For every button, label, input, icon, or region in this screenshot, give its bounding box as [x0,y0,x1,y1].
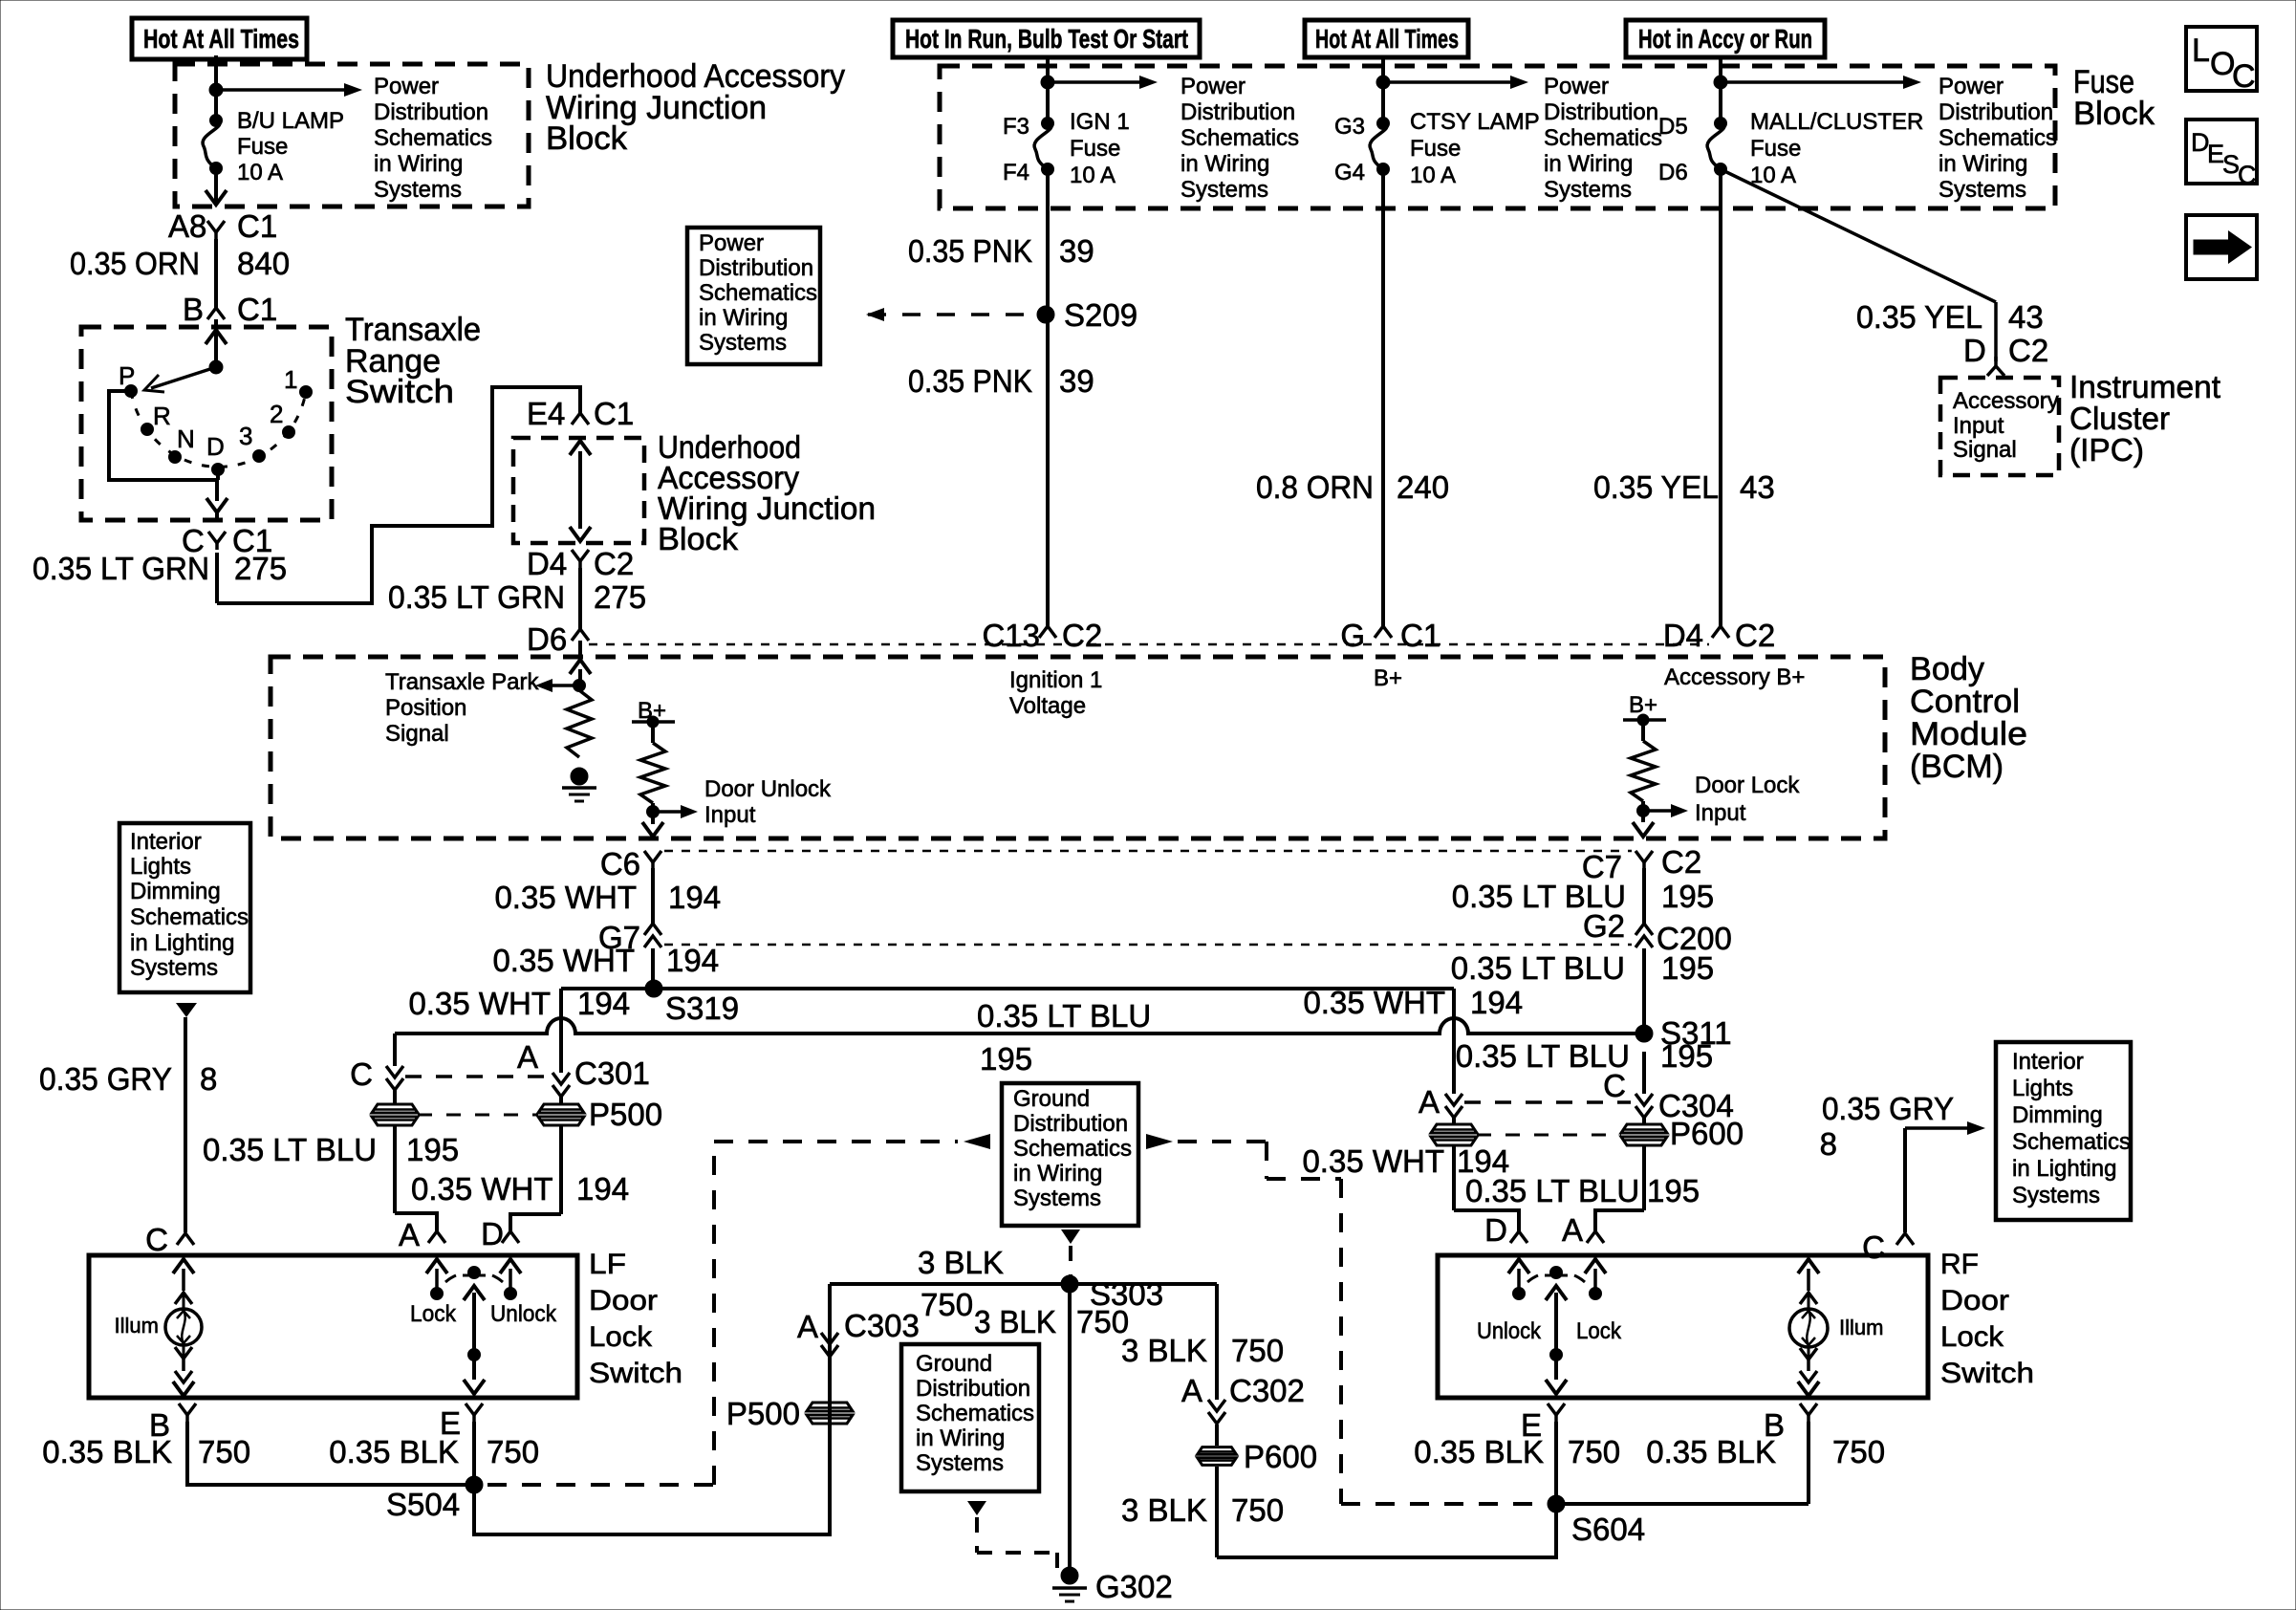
svg-text:C: C [2232,58,2256,95]
svg-text:Switch: Switch [345,374,454,410]
svg-text:0.35 WHT: 0.35 WHT [494,880,637,915]
svg-text:0.35 WHT: 0.35 WHT [1303,985,1445,1020]
svg-text:A: A [517,1039,538,1075]
svg-text:3 BLK: 3 BLK [1121,1492,1207,1528]
svg-text:A: A [1181,1373,1202,1408]
svg-text:D5: D5 [1658,114,1688,140]
svg-text:B: B [183,292,204,327]
svg-text:39: 39 [1059,233,1094,269]
svg-text:D4: D4 [527,546,567,581]
svg-text:Schematics: Schematics [1939,125,2057,151]
svg-text:Cluster: Cluster [2069,401,2170,436]
svg-text:L: L [2192,33,2210,69]
svg-text:in Wiring: in Wiring [699,305,788,331]
svg-text:Lock: Lock [589,1321,653,1353]
svg-text:Distribution: Distribution [374,99,488,125]
svg-text:Dimming: Dimming [2012,1102,2103,1128]
svg-text:Schematics: Schematics [1013,1136,1132,1162]
svg-text:Hot in Accy or Run: Hot in Accy or Run [1638,24,1812,54]
svg-text:C2: C2 [2008,333,2048,368]
svg-text:D6: D6 [1658,160,1688,185]
svg-text:Signal: Signal [385,721,449,747]
svg-text:C1: C1 [237,208,277,244]
svg-text:0.35 PNK: 0.35 PNK [908,233,1032,269]
svg-text:194: 194 [576,1171,629,1207]
svg-text:in Wiring: in Wiring [916,1425,1005,1451]
svg-text:3 BLK: 3 BLK [1121,1333,1207,1368]
svg-text:43: 43 [1740,469,1775,505]
svg-text:in Wiring: in Wiring [1544,151,1633,177]
svg-text:8: 8 [1820,1126,1837,1162]
svg-text:750: 750 [1568,1434,1620,1469]
svg-text:0.8 ORN: 0.8 ORN [1256,469,1374,505]
svg-text:Accessory: Accessory [1953,388,2059,414]
svg-text:C: C [2238,161,2257,189]
svg-text:C1: C1 [1400,618,1440,653]
svg-text:750: 750 [198,1434,250,1469]
svg-text:C2: C2 [594,546,634,581]
svg-text:D: D [481,1216,504,1251]
svg-text:Transaxle Park: Transaxle Park [385,669,540,695]
svg-text:Systems: Systems [1939,177,2026,203]
svg-text:Fuse: Fuse [1410,136,1461,162]
svg-text:Power: Power [1180,74,1245,99]
svg-text:Distribution: Distribution [916,1376,1030,1402]
svg-text:Dimming: Dimming [130,879,221,904]
svg-text:240: 240 [1397,469,1449,505]
svg-text:275: 275 [234,551,287,586]
svg-text:C: C [145,1222,168,1257]
svg-text:Schematics: Schematics [374,125,492,151]
svg-text:Lock: Lock [410,1301,457,1327]
svg-text:10 A: 10 A [1070,163,1116,188]
svg-text:in Wiring: in Wiring [1180,151,1269,177]
svg-text:Control: Control [1910,684,2020,720]
svg-text:10 A: 10 A [237,160,283,185]
svg-text:195: 195 [1647,1173,1700,1208]
svg-text:Ignition 1: Ignition 1 [1009,667,1102,693]
svg-text:0.35 YEL: 0.35 YEL [1856,299,1982,335]
svg-text:in Wiring: in Wiring [374,151,463,177]
svg-text:C: C [1862,1229,1885,1265]
svg-text:0.35 WHT: 0.35 WHT [408,986,551,1021]
svg-text:C2: C2 [1661,844,1701,880]
svg-text:D: D [206,432,225,461]
svg-text:G302: G302 [1095,1569,1173,1604]
svg-text:in Wiring: in Wiring [1013,1161,1102,1186]
svg-text:C2: C2 [1062,618,1102,653]
svg-text:43: 43 [2008,299,2044,335]
svg-text:A8: A8 [168,208,206,244]
svg-text:0.35 GRY: 0.35 GRY [1822,1091,1954,1126]
svg-text:194: 194 [668,880,721,915]
svg-text:0.35 LT GRN: 0.35 LT GRN [32,551,209,586]
svg-text:R: R [153,402,171,430]
svg-text:Signal: Signal [1953,437,2017,463]
svg-text:Power: Power [374,74,439,99]
svg-text:G: G [1340,618,1365,653]
svg-text:750: 750 [487,1434,539,1469]
svg-text:195: 195 [1661,879,1714,914]
svg-text:D: D [1484,1212,1507,1248]
svg-text:194: 194 [577,986,630,1021]
svg-text:S209: S209 [1064,297,1137,333]
svg-text:Illum: Illum [1839,1316,1883,1339]
svg-text:Schematics: Schematics [1180,125,1299,151]
svg-text:Distribution: Distribution [1013,1111,1128,1137]
svg-text:Instrument: Instrument [2069,369,2220,404]
svg-text:Schematics: Schematics [699,280,817,306]
svg-text:C1: C1 [237,292,277,327]
svg-text:S319: S319 [665,990,739,1026]
svg-text:Input: Input [704,802,756,828]
svg-text:Schematics: Schematics [130,904,249,930]
svg-text:0.35 ORN: 0.35 ORN [70,246,200,281]
svg-text:Unlock: Unlock [1477,1318,1542,1344]
svg-text:Accessory B+: Accessory B+ [1664,664,1805,690]
svg-text:B/U LAMP: B/U LAMP [237,108,344,134]
svg-text:C6: C6 [600,846,640,881]
svg-text:Hot In Run, Bulb Test Or Start: Hot In Run, Bulb Test Or Start [905,24,1188,54]
svg-text:F3: F3 [1003,114,1029,140]
svg-text:840: 840 [237,246,290,281]
svg-text:Systems: Systems [130,955,218,981]
svg-text:Illum: Illum [115,1314,159,1338]
svg-text:A: A [1419,1084,1440,1120]
svg-text:750: 750 [1832,1434,1885,1469]
svg-text:0.35 LT BLU: 0.35 LT BLU [1451,950,1625,986]
svg-text:10 A: 10 A [1750,163,1796,188]
svg-text:A: A [399,1217,420,1252]
svg-text:Input: Input [1695,800,1746,826]
svg-text:P500: P500 [726,1396,800,1431]
svg-text:C303: C303 [844,1308,920,1343]
svg-text:Body: Body [1910,651,1984,687]
svg-text:LF: LF [589,1249,626,1280]
svg-text:Block: Block [658,521,739,556]
svg-text:3 BLK: 3 BLK [918,1245,1004,1280]
svg-text:Door: Door [589,1285,658,1316]
svg-text:750: 750 [921,1287,973,1322]
svg-text:Ground: Ground [1013,1086,1090,1112]
svg-text:C2: C2 [1735,618,1775,653]
svg-text:0.35 LT GRN: 0.35 LT GRN [388,579,565,615]
svg-text:Interior: Interior [130,829,202,855]
svg-text:Schematics: Schematics [916,1401,1034,1426]
svg-text:Block: Block [2073,96,2155,132]
svg-text:C13: C13 [982,618,1040,653]
svg-text:C302: C302 [1229,1373,1305,1408]
svg-text:0.35 BLK: 0.35 BLK [1646,1434,1776,1469]
svg-text:Fuse: Fuse [1070,136,1120,162]
svg-text:Systems: Systems [374,177,462,203]
svg-text:Lights: Lights [130,854,191,880]
svg-text:Lights: Lights [2012,1076,2073,1101]
svg-text:Hot At All Times: Hot At All Times [1315,24,1459,54]
svg-text:Systems: Systems [916,1450,1004,1476]
svg-text:C: C [350,1056,373,1092]
svg-text:0.35 YEL: 0.35 YEL [1593,469,1719,505]
svg-text:0.35 PNK: 0.35 PNK [908,363,1032,399]
svg-text:S504: S504 [386,1487,460,1522]
svg-text:3: 3 [239,422,252,450]
svg-text:Schematics: Schematics [1544,125,1662,151]
svg-text:Distribution: Distribution [1544,99,1658,125]
svg-text:0.35 LT BLU: 0.35 LT BLU [203,1132,377,1167]
svg-text:750: 750 [1231,1333,1284,1368]
svg-text:194: 194 [666,943,719,978]
svg-text:195: 195 [1661,950,1714,986]
svg-text:Distribution: Distribution [1939,99,2053,125]
svg-text:P: P [119,361,135,390]
svg-text:0.35 BLK: 0.35 BLK [42,1434,172,1469]
svg-text:S604: S604 [1571,1512,1645,1547]
svg-text:195: 195 [406,1132,459,1167]
svg-text:1: 1 [284,365,297,394]
svg-text:2: 2 [270,400,283,428]
svg-text:750: 750 [1231,1492,1284,1528]
svg-text:194: 194 [1470,985,1523,1020]
svg-text:Door: Door [1940,1285,2009,1316]
svg-text:0.35 LT BLU: 0.35 LT BLU [977,998,1151,1033]
svg-text:CTSY LAMP: CTSY LAMP [1410,109,1540,135]
svg-text:P600: P600 [1670,1116,1744,1151]
svg-text:Module: Module [1910,716,2027,752]
svg-text:in Lighting: in Lighting [2012,1156,2116,1182]
svg-text:Distribution: Distribution [1180,99,1295,125]
svg-text:0.35 LT BLU: 0.35 LT BLU [1465,1173,1639,1208]
svg-text:N: N [177,424,195,453]
svg-text:Position: Position [385,695,466,721]
svg-text:RF: RF [1940,1249,1979,1280]
svg-text:0.35 BLK: 0.35 BLK [329,1434,459,1469]
svg-text:195: 195 [980,1041,1032,1077]
svg-text:Systems: Systems [1180,177,1268,203]
svg-text:(IPC): (IPC) [2069,432,2144,468]
svg-text:B+: B+ [1374,665,1402,691]
svg-text:D: D [1963,333,1986,368]
svg-text:(BCM): (BCM) [1910,749,2004,785]
svg-text:F4: F4 [1003,160,1029,185]
svg-text:C: C [1603,1068,1626,1103]
svg-text:G2: G2 [1583,908,1625,944]
svg-text:275: 275 [594,579,646,615]
svg-text:8: 8 [200,1061,217,1097]
svg-text:Fuse: Fuse [1750,136,1801,162]
svg-text:Unlock: Unlock [490,1301,557,1327]
svg-text:Systems: Systems [2012,1183,2100,1208]
svg-text:Hot At All Times: Hot At All Times [143,24,299,54]
svg-text:Systems: Systems [1013,1186,1101,1211]
svg-text:Systems: Systems [1544,177,1632,203]
svg-text:10 A: 10 A [1410,163,1456,188]
svg-text:Distribution: Distribution [699,255,813,281]
svg-text:0.35 BLK: 0.35 BLK [1414,1434,1544,1469]
svg-text:G3: G3 [1334,114,1365,140]
svg-text:D6: D6 [527,621,567,657]
svg-text:Interior: Interior [2012,1049,2084,1075]
svg-text:Input: Input [1953,413,2004,439]
svg-text:Door Lock: Door Lock [1695,772,1800,798]
svg-text:3 BLK: 3 BLK [974,1304,1056,1339]
svg-text:IGN 1: IGN 1 [1070,109,1130,135]
svg-text:Switch: Switch [1940,1358,2034,1389]
svg-text:MALL/CLUSTER: MALL/CLUSTER [1750,109,1923,135]
svg-text:A: A [1562,1212,1583,1248]
svg-text:Schematics: Schematics [2012,1129,2131,1155]
svg-text:C1: C1 [594,396,634,431]
svg-text:Fuse: Fuse [237,134,288,160]
svg-text:Lock: Lock [1940,1321,2004,1353]
svg-text:0.35 GRY: 0.35 GRY [39,1061,172,1097]
svg-text:G4: G4 [1334,160,1365,185]
svg-text:P500: P500 [589,1097,662,1132]
svg-text:Lock: Lock [1576,1318,1622,1344]
svg-text:0.35 WHT: 0.35 WHT [492,943,635,978]
svg-text:in Wiring: in Wiring [1939,151,2027,177]
svg-text:Power: Power [699,230,764,256]
svg-text:Voltage: Voltage [1009,693,1086,719]
svg-text:C301: C301 [574,1055,650,1091]
svg-text:Ground: Ground [916,1351,992,1377]
svg-text:in Lighting: in Lighting [130,930,234,956]
svg-text:0.35 WHT: 0.35 WHT [411,1171,553,1207]
svg-text:39: 39 [1059,363,1094,399]
svg-text:Block: Block [546,120,628,157]
svg-text:E4: E4 [527,396,565,431]
svg-text:D4: D4 [1663,618,1703,653]
svg-text:P600: P600 [1244,1439,1317,1474]
svg-text:Power: Power [1544,74,1609,99]
svg-text:195: 195 [1660,1038,1713,1074]
svg-text:Door Unlock: Door Unlock [704,776,832,802]
svg-text:A: A [797,1309,818,1344]
svg-text:Systems: Systems [699,330,787,356]
svg-text:Switch: Switch [589,1358,682,1389]
svg-text:Power: Power [1939,74,2004,99]
svg-text:0.35 WHT: 0.35 WHT [1302,1143,1444,1179]
